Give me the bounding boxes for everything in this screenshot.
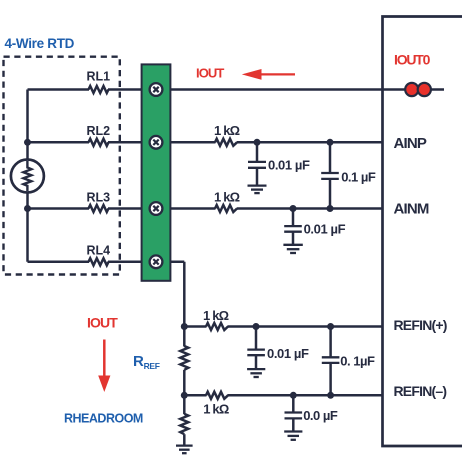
resistor RL2 (87, 124, 111, 146)
svg-text:RL3: RL3 (87, 190, 111, 204)
svg-text:4-Wire RTD: 4-Wire RTD (5, 36, 75, 51)
pin label REFIN(-) (394, 383, 447, 399)
capacitor 0.01uF AINM (284, 209, 345, 245)
resistor RL3 (87, 190, 111, 212)
svg-text:RL2: RL2 (87, 124, 111, 138)
junction dot REFIN- x330 (327, 392, 334, 399)
label RREF (133, 353, 160, 371)
resistor RREF vertical (180, 346, 188, 370)
pin label IOUT0 (394, 52, 431, 68)
junction dot RL2 left (24, 139, 31, 146)
resistor 1k REFIN+ (203, 308, 229, 330)
capacitor 0.1uF between REFIN+ and REFIN- (322, 327, 375, 396)
svg-text:1 kΩ: 1 kΩ (203, 402, 229, 417)
terminal 3 circled X (150, 202, 163, 215)
resistor RL4 (87, 244, 111, 266)
wire RL4 row (28, 261, 185, 264)
svg-text:0. 1µF: 0. 1µF (340, 354, 375, 369)
capacitor 0.1uF between AINP and AINM (321, 142, 376, 208)
ground bottom headroom (176, 446, 193, 454)
svg-text:0.01 µF: 0.01 µF (304, 221, 346, 236)
svg-text:REFIN(–): REFIN(–) (394, 383, 447, 399)
label 4-Wire RTD (5, 36, 75, 51)
pin label AINM (394, 201, 429, 218)
junction dot AINM x293 (290, 205, 297, 212)
red arrow pointing left (242, 69, 295, 80)
ground REFIN- cap (284, 432, 302, 440)
wire left vertical bus (26, 90, 29, 262)
svg-text:IOUT: IOUT (87, 315, 118, 331)
svg-text:0.1 µF: 0.1 µF (341, 170, 376, 185)
svg-text:REFIN(+): REFIN(+) (394, 317, 447, 333)
svg-text:0.01 µF: 0.01 µF (267, 346, 309, 361)
svg-text:R: R (133, 353, 144, 370)
junction dot AINP x330 (327, 139, 334, 146)
label RHEADROOM (64, 411, 143, 425)
svg-text:AINP: AINP (394, 135, 427, 152)
label IOUT bottom (87, 315, 118, 331)
junction dot REFIN+ x184 (181, 323, 188, 330)
RTD sensor circle (11, 160, 44, 193)
svg-text:1 kΩ: 1 kΩ (214, 189, 240, 204)
svg-text:RL1: RL1 (87, 70, 111, 84)
svg-text:REF: REF (144, 361, 160, 371)
svg-text:AINM: AINM (394, 201, 429, 218)
ground REFIN+ cap (247, 369, 265, 377)
junction dot REFIN- x184 (181, 392, 188, 399)
wire reference bus vertical (183, 262, 186, 414)
svg-text:1 kΩ: 1 kΩ (214, 123, 240, 138)
resistor 1k AINP (214, 123, 240, 146)
pin label AINP (394, 135, 427, 152)
ground AINP cap (248, 186, 267, 194)
junction dot REFIN+ x330 (327, 323, 334, 330)
junction dot REFIN- x293 (290, 392, 297, 399)
resistor bottom headroom vertical (180, 414, 188, 446)
junction dot AINM x330 (327, 205, 334, 212)
terminal 2 circled X (150, 136, 163, 149)
ground AINM cap (283, 245, 302, 253)
label IOUT top (196, 66, 224, 81)
capacitor 0.01uF REFIN+ (247, 327, 309, 370)
terminal 4 circled X (150, 255, 163, 268)
dashed RTD enclosure box (4, 57, 120, 275)
junction dot AINP x257 (254, 139, 261, 146)
wire IOUT row (RL1 to IOUT0 pin) (28, 88, 445, 91)
svg-text:0.01 µF: 0.01 µF (268, 158, 310, 173)
svg-text:RHEADROOM: RHEADROOM (64, 411, 143, 425)
junction dot REFIN+ x256 (253, 323, 260, 330)
wire REFIN(-) row (184, 394, 382, 397)
junction dot RL3 left (24, 205, 31, 212)
capacitor 0.01uF AINP (248, 142, 310, 185)
ADC IC box (383, 17, 463, 447)
resistor 1k REFIN- (203, 392, 229, 417)
svg-text:IOUT0: IOUT0 (394, 52, 431, 68)
resistor RL1 (87, 70, 111, 93)
svg-text:RL4: RL4 (87, 244, 111, 258)
wire AINM row (28, 207, 383, 210)
wire AINP row (28, 141, 383, 144)
current source red double circle (405, 83, 431, 96)
svg-text:IOUT: IOUT (196, 66, 224, 81)
terminal 1 circled X (150, 83, 163, 96)
svg-text:1 kΩ: 1 kΩ (203, 308, 229, 323)
green terminal block strip (142, 64, 171, 280)
pin label REFIN(+) (394, 317, 447, 333)
wire REFIN(+) row (184, 325, 382, 328)
svg-text:0.0 µF: 0.0 µF (303, 408, 338, 423)
red arrow down (98, 340, 110, 393)
resistor 1k AINM (214, 189, 240, 212)
capacitor 0.0uF REFIN- (285, 395, 338, 431)
